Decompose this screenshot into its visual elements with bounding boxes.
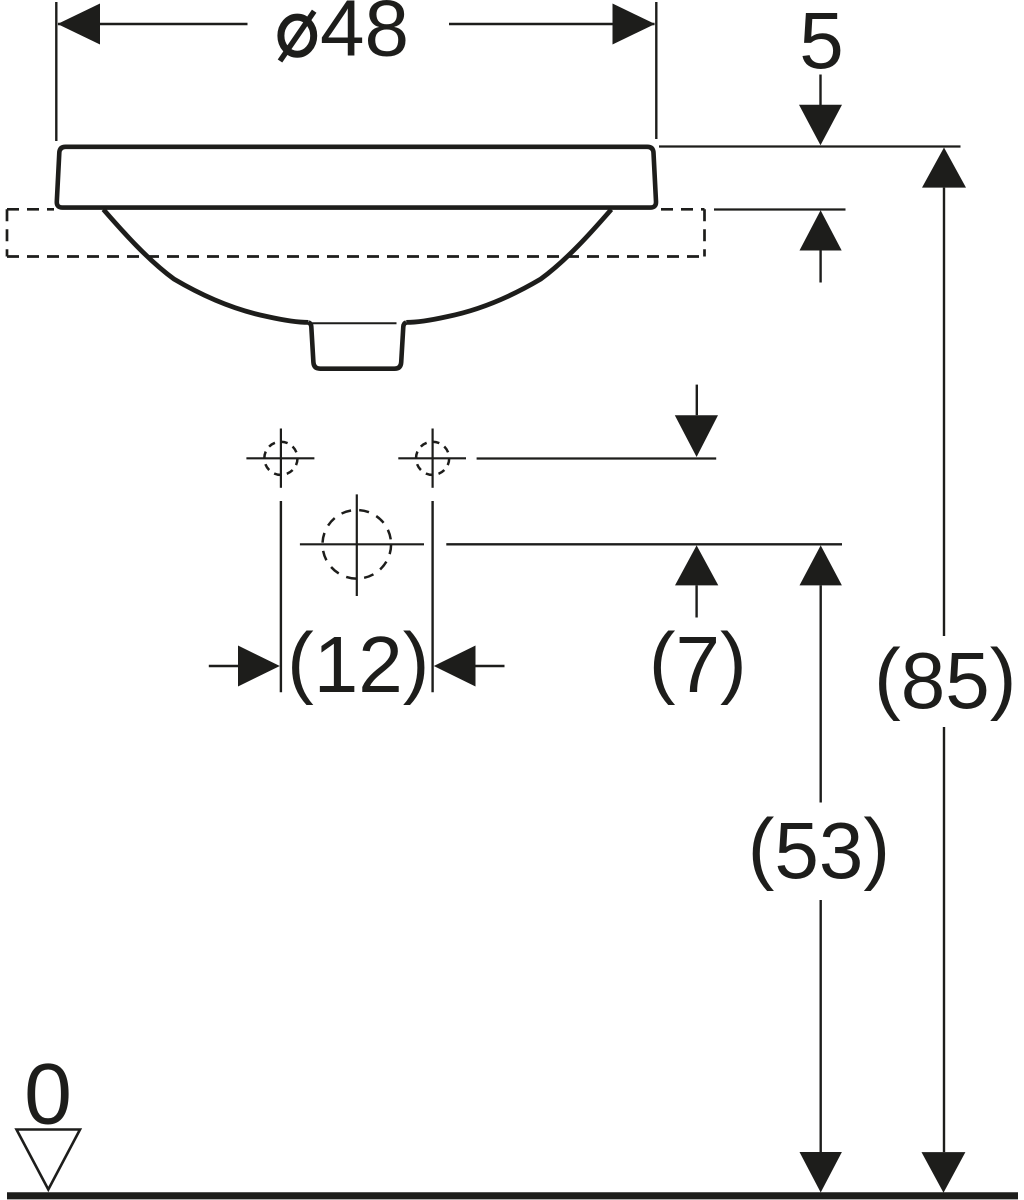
dimension line 53 lower xyxy=(820,900,822,1152)
countertop dashed outline left top xyxy=(7,208,54,211)
datum triangle xyxy=(17,1130,81,1190)
extension line right (o48) xyxy=(655,2,657,139)
svg-text:5: 5 xyxy=(799,0,844,85)
diameter symbol of o48 xyxy=(281,17,314,54)
reference line holes right xyxy=(477,457,717,459)
countertop dashed right edge xyxy=(703,209,706,256)
svg-text:(7): (7) xyxy=(649,617,747,710)
extension line 12 left xyxy=(280,501,282,692)
reference line rim top xyxy=(659,145,961,147)
arrow 85 up xyxy=(922,148,966,188)
arrow 5 up (below counter line) xyxy=(800,210,842,250)
faucet hole left v centerline xyxy=(280,429,282,488)
tail of arrow 7 up xyxy=(695,585,697,617)
basin bowl right curve xyxy=(406,209,611,322)
arrow 53 down xyxy=(800,1152,842,1193)
arrow 12 left xyxy=(238,646,280,687)
countertop dashed bottom xyxy=(7,255,705,258)
faucet hole left h centerline xyxy=(246,457,314,459)
dimension line 53 upper xyxy=(820,585,822,802)
tail 12 right xyxy=(476,665,505,667)
arrow 7 down xyxy=(675,415,718,457)
mixer hole v centerline xyxy=(356,494,358,596)
basin rim xyxy=(57,147,656,208)
svg-text:48: 48 xyxy=(320,0,409,73)
arrow 53 up xyxy=(800,545,842,585)
mixer hole h centerline xyxy=(300,543,424,545)
svg-text:(85): (85) xyxy=(874,633,1016,726)
label o48 xyxy=(280,0,409,73)
dimension line o48 right segment xyxy=(449,23,655,25)
tail 12 left xyxy=(209,665,238,667)
drain outline xyxy=(309,322,407,368)
countertop dashed left edge xyxy=(6,209,9,256)
faucet hole left dashed circle xyxy=(264,442,297,475)
dimension line o48 left segment xyxy=(58,23,248,25)
arrow o48 right xyxy=(613,4,656,45)
drain flange line xyxy=(312,322,397,324)
extension line left (o48) xyxy=(55,2,57,141)
faucet hole right dashed circle xyxy=(416,442,449,475)
arrow 7 up xyxy=(675,545,718,585)
svg-text:0: 0 xyxy=(24,1047,72,1143)
svg-text:(53): (53) xyxy=(748,803,890,896)
faucet hole right v centerline xyxy=(432,429,434,488)
leader line 5 xyxy=(819,75,821,106)
arrow 12 right xyxy=(434,646,476,687)
dimension line 85 upper xyxy=(943,188,945,636)
arrow 5 down xyxy=(799,105,842,146)
tail of arrow 5 up xyxy=(819,251,821,283)
svg-text:(12): (12) xyxy=(287,617,429,710)
leader line 7 top xyxy=(696,385,698,416)
faucet hole right h centerline xyxy=(398,457,466,459)
reference line mixer right xyxy=(446,543,842,545)
arrow o48 left xyxy=(58,4,101,45)
extension line 12 right xyxy=(431,501,433,692)
basin bowl left curve xyxy=(103,209,308,322)
arrow 85 down xyxy=(922,1152,966,1193)
mixer hole dashed circle xyxy=(323,510,392,579)
reference line counter top xyxy=(714,208,846,210)
ground line xyxy=(7,1192,1018,1199)
countertop dashed outline right top xyxy=(661,208,705,211)
dimension line 85 lower xyxy=(943,727,945,1152)
